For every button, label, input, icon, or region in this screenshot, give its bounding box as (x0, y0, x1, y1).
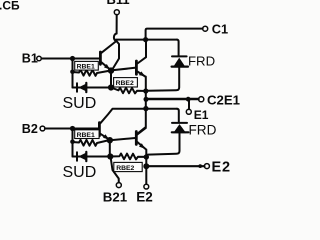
svg-text:B21: B21 (103, 190, 128, 205)
svg-text:.CБ: .CБ (0, 0, 20, 13)
svg-text:FRD: FRD (188, 53, 215, 68)
svg-text:SUD: SUD (63, 95, 97, 112)
svg-text:RBE2: RBE2 (116, 165, 134, 172)
svg-text:B11: B11 (107, 0, 130, 7)
svg-text:B2: B2 (22, 122, 38, 136)
svg-text:C2E1: C2E1 (207, 93, 240, 108)
svg-text:RBE1: RBE1 (77, 64, 95, 71)
svg-text:RBE2: RBE2 (116, 80, 134, 87)
svg-text:E2: E2 (212, 159, 231, 175)
svg-text:RBE1: RBE1 (77, 132, 95, 139)
svg-text:E2: E2 (136, 190, 153, 205)
svg-text:SUD: SUD (63, 164, 97, 181)
svg-text:FRD: FRD (189, 123, 217, 138)
svg-text:B1: B1 (22, 52, 38, 66)
svg-text:E1: E1 (194, 108, 209, 122)
svg-text:C1: C1 (212, 22, 228, 37)
